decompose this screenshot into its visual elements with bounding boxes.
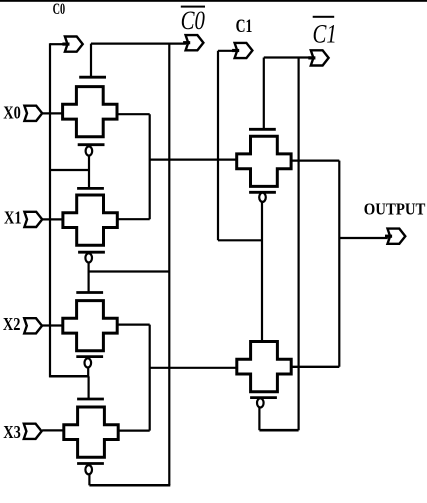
- svg-text:C0: C0: [181, 7, 205, 36]
- svg-text:X3: X3: [3, 422, 21, 443]
- svg-text:C1: C1: [313, 20, 337, 49]
- svg-text:OUTPUT: OUTPUT: [364, 200, 426, 218]
- svg-text:X1: X1: [4, 207, 22, 228]
- svg-text:X2: X2: [3, 314, 21, 335]
- svg-text:C0: C0: [53, 0, 66, 17]
- svg-text:C1: C1: [236, 15, 253, 37]
- svg-text:X0: X0: [3, 102, 21, 123]
